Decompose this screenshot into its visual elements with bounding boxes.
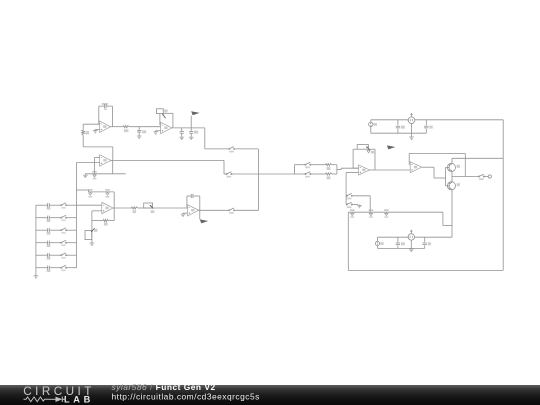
- voltage source V1: [369, 120, 377, 133]
- terminal OUT: [485, 175, 492, 178]
- capacitor C9: [423, 237, 432, 248]
- wire left rail: [347, 212, 349, 270]
- wire Q1 collector to V+ rail: [452, 158, 503, 163]
- capacitor C2 to ground: [137, 127, 146, 139]
- wire OA4 output: [113, 207, 132, 209]
- capacitor C8: [396, 237, 405, 248]
- wire ladder left bus: [35, 205, 37, 276]
- op-amp OA6: [359, 165, 370, 175]
- switch SW12 ladder row 3: [61, 228, 77, 234]
- potentiometer R12 in OA6 feedback: [353, 145, 375, 170]
- switch SW10 ladder row 1: [61, 203, 77, 209]
- wire supply bottom rail: [371, 132, 427, 134]
- capacitor C7: [424, 120, 433, 133]
- capacitor C12 ladder row 3: [36, 228, 61, 235]
- ground at OA5 non-inverting input: [181, 213, 188, 216]
- resistor R10 gain branch 1: [326, 164, 337, 170]
- wire output node: [452, 176, 478, 178]
- voltage probe flag square wave: [191, 111, 199, 128]
- switch SW7 gain branch 2: [294, 172, 325, 178]
- wire OA6 output to OA7: [370, 169, 411, 171]
- switch SW2 triangle select: [226, 172, 232, 178]
- wire to OA5L input: [153, 207, 188, 209]
- op-amp OA1: [100, 121, 111, 132]
- wire node below OA3: [85, 160, 125, 173]
- net flag V- 1: [350, 209, 355, 218]
- CircuitLab logo text LAB: [64, 394, 94, 404]
- svg-text:LAB: LAB: [64, 394, 94, 404]
- transistor Q2 PNP: [446, 182, 461, 190]
- op-amp OA3: [100, 155, 111, 166]
- capacitor C15 ladder row 6: [36, 266, 61, 273]
- ground below OA3: [83, 174, 88, 178]
- capacitor C14 ladder row 5: [36, 253, 61, 260]
- resistor R1 on OA1 input: [82, 124, 89, 147]
- capacitor C5 in OA5 feedback: [187, 194, 200, 220]
- footer title text: [112, 382, 216, 392]
- battery B1: [407, 114, 415, 137]
- svg-text:sylar586 / Funct Gen V2: sylar586 / Funct Gen V2: [112, 382, 216, 392]
- switch SW10 output enable: [478, 174, 484, 180]
- svg-text:http://circuitlab.com/cd3eexqr: http://circuitlab.com/cd3eexqrcgc5s: [112, 391, 260, 401]
- voltage probe flag triangle wave: [200, 219, 208, 223]
- wire SW2 to gain block: [232, 173, 294, 175]
- wire OA5 output: [199, 209, 229, 211]
- resistor R4 in OA4 feedback: [103, 219, 109, 225]
- capacitor C10 ladder row 1: [36, 203, 61, 210]
- capacitor C1 in OA1 feedback: [99, 103, 113, 127]
- wire OA7 feedback from output node: [409, 153, 465, 176]
- wire selector node vertical: [257, 149, 259, 210]
- wire switch SW1 to node: [235, 148, 259, 150]
- potentiometer R5 to ground at OA4: [85, 221, 98, 246]
- wire Q2 collector down to negative rail: [451, 190, 453, 238]
- op-amp OA7: [410, 162, 422, 173]
- switch SW9 to ground: [346, 202, 361, 208]
- switch SW1 square select: [229, 147, 235, 153]
- ground at OA2 non-inverting input: [153, 131, 160, 134]
- wire bus stub to net flags: [77, 190, 115, 192]
- switch SW14 ladder row 5: [61, 253, 77, 259]
- switch SW15 ladder row 6: [61, 265, 77, 271]
- wire V+ right rail: [502, 120, 504, 271]
- wire V+ top rail: [371, 119, 503, 121]
- ground battery B2: [409, 249, 414, 251]
- battery B2: [407, 230, 414, 249]
- op-amp OA4: [102, 202, 113, 213]
- wire ladder right bus: [76, 163, 78, 268]
- CircuitLab logo text CIRCUIT: [23, 385, 95, 398]
- capacitor C4 to ground: [189, 128, 198, 140]
- capacitor C11 ladder row 2: [36, 216, 61, 223]
- wire emitters to output node: [451, 171, 453, 182]
- footer url text: [112, 391, 260, 401]
- switch SW3 sine select: [229, 208, 235, 214]
- net flag A: [88, 189, 93, 198]
- wire gain block input: [293, 165, 295, 174]
- wire SW3 to node: [235, 209, 259, 211]
- wire OA4 positive feedback loop: [92, 192, 114, 221]
- wire feedback from OA3 output to OA1 input: [83, 147, 113, 161]
- capacitor C6: [396, 120, 405, 133]
- wire V- supply top rail: [378, 236, 453, 238]
- wire down to SW2: [224, 160, 226, 174]
- wire bottom rail: [348, 269, 503, 271]
- op-amp OA2: [161, 122, 172, 133]
- wire OA4 inverting input from ladder: [77, 204, 102, 206]
- resistor R6: [132, 207, 144, 213]
- wire gain block output: [337, 165, 359, 174]
- switch SW8 offset: [346, 194, 370, 213]
- transistor Q1 NPN: [446, 163, 461, 171]
- wire base rail: [445, 167, 447, 185]
- potentiometer R3 in OA2 feedback: [157, 109, 173, 128]
- capacitor C13 ladder row 4: [36, 241, 61, 248]
- voltage probe flag sine: [387, 145, 395, 149]
- wire OA2 output: [172, 127, 205, 129]
- potentiometer R7 rheostat: [144, 203, 155, 213]
- op-amp OA5: [188, 205, 199, 216]
- net flag V- 2: [369, 209, 374, 218]
- resistor R2 after OA1 output: [111, 126, 161, 133]
- switch SW6 gain branch 1: [294, 162, 325, 168]
- wire bus jog to Q2 collector: [443, 212, 452, 225]
- wire from OA2 down to selector: [205, 128, 229, 149]
- wire V2 bottom rail: [378, 247, 425, 249]
- wire OA5 +input offset network: [346, 172, 358, 204]
- wire negative bus: [348, 211, 443, 213]
- net flag B: [105, 189, 110, 198]
- capacitor C3 to ground: [179, 128, 184, 140]
- CircuitLab logo resistor-diode glyph: [24, 397, 67, 402]
- wire OA3 output run: [111, 159, 224, 161]
- net flag below R12: [367, 151, 374, 154]
- resistor R11 gain branch 2: [326, 173, 337, 179]
- voltage source V2: [375, 237, 383, 248]
- net flag V- 3: [384, 209, 389, 218]
- ground battery B1: [409, 137, 414, 139]
- switch SW13 ladder row 4: [61, 240, 77, 246]
- ground at OA1 non-inverting input: [93, 130, 100, 133]
- ground ladder bus: [34, 276, 39, 278]
- switch SW11 ladder row 2: [61, 215, 77, 221]
- wire OA3 non-inverting input to bus: [77, 162, 100, 164]
- wire OA7 output to bases: [422, 167, 446, 178]
- wire OA3 inverting input: [95, 158, 100, 174]
- wire OA1 inverting input: [83, 123, 99, 125]
- net flag below OA3: [92, 171, 97, 180]
